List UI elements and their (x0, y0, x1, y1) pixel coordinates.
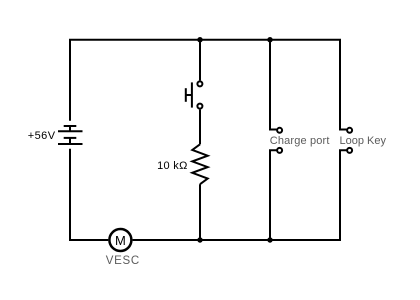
battery B1 (58, 126, 83, 144)
junction dot bottom charge branch (267, 237, 272, 242)
junction dot bottom pushbutton branch (197, 237, 202, 242)
svg-text:M: M (115, 233, 126, 248)
switch S3 loop key contacts (347, 128, 352, 153)
svg-text:Loop Key: Loop Key (340, 135, 387, 147)
wire top rail with left and right upper leads (70, 40, 347, 130)
pushbutton S1 (186, 81, 203, 108)
motor M1 (109, 229, 131, 251)
wire charge-port branch upper lead (270, 40, 277, 130)
svg-text:+56V: +56V (28, 130, 56, 142)
wire pushbutton upper lead (199, 40, 201, 81)
svg-text:10 kΩ: 10 kΩ (157, 160, 188, 172)
svg-text:Charge port: Charge port (270, 135, 330, 147)
wire charge-port branch lower lead (270, 150, 277, 240)
resistor R1 (192, 144, 207, 184)
junction dot top pushbutton branch (197, 37, 202, 42)
junction dot top charge branch (267, 37, 272, 42)
wire battery lower lead and bottom-left rail (70, 149, 108, 240)
switch S2 charge port contacts (277, 128, 282, 153)
svg-text:VESC: VESC (106, 255, 140, 267)
wire between pushbutton and resistor (199, 110, 201, 145)
wire bottom rail from motor to right with loop-key lower lead (133, 150, 347, 240)
wire resistor lower lead (199, 184, 201, 240)
